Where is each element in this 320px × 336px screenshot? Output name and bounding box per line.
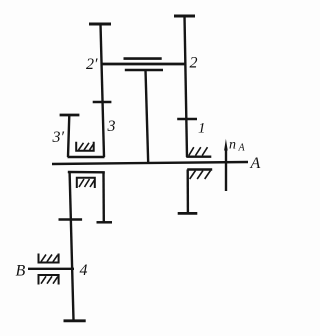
gear mesh line between 2' and 2 xyxy=(102,63,187,66)
svg-text:3′: 3′ xyxy=(52,129,65,146)
B upper bearing block with hatching xyxy=(39,254,59,263)
lower end of left vertical shaft xyxy=(102,172,105,222)
gear 2 top face cap xyxy=(174,15,195,18)
speed arrow n_A shaft xyxy=(225,148,227,191)
upper rim line of central gear xyxy=(124,57,162,60)
svg-text:A: A xyxy=(250,155,261,172)
gear 2' top face cap xyxy=(89,23,111,26)
B lower bearing block with hatching xyxy=(39,275,59,285)
gear 3' top cap xyxy=(60,114,80,117)
main shaft A xyxy=(52,162,248,164)
svg-text:B: B xyxy=(16,263,26,280)
gear 3 face tick xyxy=(93,101,112,104)
left lower bearing block with hatching xyxy=(77,178,95,188)
gear 4 bottom cap xyxy=(64,319,86,322)
shaft of gears 2 and 1 (right vertical shaft) xyxy=(185,16,188,157)
central vertical shaft xyxy=(146,70,149,163)
gear 3' bar xyxy=(68,115,69,157)
speed arrow n_A head xyxy=(224,139,228,151)
gear 4 bar / vertical shaft down to B xyxy=(70,172,74,320)
left upper bearing block with hatching xyxy=(76,142,94,151)
left lower bearing housing top line xyxy=(68,171,105,174)
svg-text:4: 4 xyxy=(80,262,88,279)
right bearing upper hatches xyxy=(189,147,194,155)
svg-text:1: 1 xyxy=(198,121,206,137)
right bearing lower hatches xyxy=(190,171,196,180)
svg-text:2′: 2′ xyxy=(86,56,98,73)
gear 4 top cap xyxy=(59,218,83,221)
shaft of gears 2' and 3 (left vertical shaft) xyxy=(101,24,105,157)
left bearing housing bottom line xyxy=(68,156,105,158)
lower rim line of central gear xyxy=(125,69,163,72)
left shaft foot cap xyxy=(97,221,113,224)
right bearing upper ground line xyxy=(186,155,211,157)
gear 1 face tick xyxy=(177,118,197,121)
right shaft lower end xyxy=(186,170,189,213)
shaft B xyxy=(28,268,74,270)
right bearing lower ground line xyxy=(187,168,212,170)
right shaft foot cap xyxy=(178,212,198,215)
svg-text:3: 3 xyxy=(107,118,116,135)
svg-text:2: 2 xyxy=(190,55,198,72)
